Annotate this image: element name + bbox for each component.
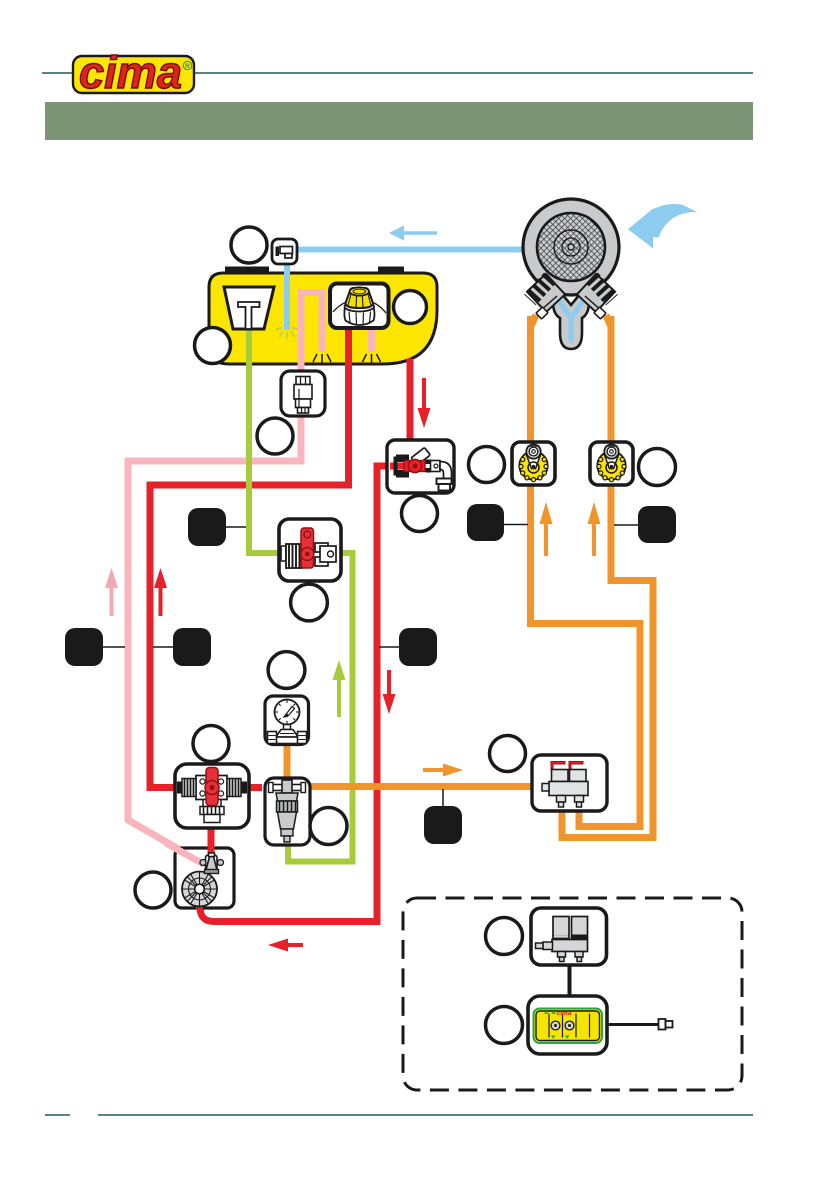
svg-text:cima: cima (557, 1010, 572, 1017)
svg-text:R: R (185, 63, 190, 70)
svg-text:cima: cima (79, 47, 182, 98)
